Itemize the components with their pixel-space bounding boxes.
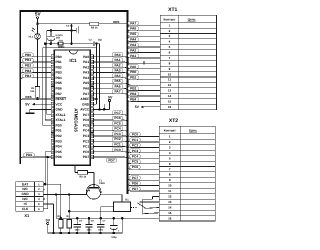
net label PC6 wire to bus <box>94 116 128 123</box>
IC1 right pin 30 AVCC <box>80 108 94 112</box>
IC1 right pin 29 PC7 <box>83 113 94 117</box>
ground symbol at GND pin <box>26 110 51 114</box>
svg-text:RES: RES <box>25 95 31 99</box>
wire R1 to RESET junction <box>37 97 39 99</box>
svg-text:PA1: PA1 <box>130 54 136 58</box>
svg-text:PD7: PD7 <box>108 158 114 162</box>
wire AREF vertical <box>96 44 98 104</box>
wire v2 to PD0 <box>43 48 51 126</box>
svg-text:PA0: PA0 <box>130 65 136 69</box>
svg-text:VCC: VCC <box>56 102 63 106</box>
junction emitter/R4 branch <box>68 193 71 196</box>
svg-text:PC7: PC7 <box>83 113 89 117</box>
svg-text:PA4: PA4 <box>83 76 89 80</box>
svg-text:PA4: PA4 <box>115 74 121 78</box>
IC1 right pin 22 PC0 <box>83 150 94 154</box>
junction R4/relay line <box>68 210 71 213</box>
svg-text:PD7: PD7 <box>132 187 138 191</box>
net label PD6 wire to bus <box>20 153 51 160</box>
svg-text:PB0: PB0 <box>130 70 136 74</box>
wire bus to XT1 pin 13 <box>128 86 161 90</box>
junction h3/AREF vertical <box>95 42 98 45</box>
IC1 left pin 16 PD2 <box>51 134 62 138</box>
junction h2/v71.5 <box>70 29 73 32</box>
capacitor C1 electrolytic <box>47 30 64 43</box>
svg-text:RES: RES <box>113 20 119 24</box>
svg-text:PD6: PD6 <box>26 153 32 157</box>
svg-text:PA2: PA2 <box>115 63 121 67</box>
junction R3 top rail <box>60 217 63 220</box>
IC1 left pin 4 PB3 <box>51 71 62 75</box>
microcontroller IC1 ATMEGA16 body <box>54 50 90 165</box>
junction AVCC/C2 <box>98 108 101 111</box>
net label PA3 wire to bus <box>94 68 128 75</box>
svg-text:PB5: PB5 <box>56 81 62 85</box>
svg-text:16: 16 <box>168 216 172 220</box>
net label PC4 wire to bus <box>94 127 128 134</box>
IC1 left pin 2 PB1 <box>51 60 62 64</box>
resistor R2 <box>75 166 94 179</box>
svg-text:11: 11 <box>168 78 172 82</box>
svg-text:PC3: PC3 <box>132 149 138 153</box>
IC1 left pin 17 PD3 <box>51 139 62 143</box>
svg-text:PC6: PC6 <box>114 116 120 120</box>
IC1 right pin 38 PA2 <box>83 65 94 69</box>
svg-text:X1: X1 <box>24 213 30 218</box>
svg-text:HL1: HL1 <box>29 36 34 39</box>
wire v56 to gnd rail <box>55 195 57 219</box>
wire bus to XT1 pin 1 <box>128 21 161 25</box>
svg-text:C945: C945 <box>99 182 105 185</box>
IC1 right pin 35 PA5 <box>83 81 94 85</box>
vertical wire x71.5 h1-h3 <box>71 24 73 44</box>
junction rail corner <box>121 217 124 220</box>
IC1 left pin 12 XTAL2 <box>51 113 65 117</box>
wire h1 5V to R5 <box>38 23 90 25</box>
net label PA4 wire to bus <box>94 74 128 81</box>
svg-text:PD6: PD6 <box>132 182 138 186</box>
wire GND stub down <box>103 104 105 109</box>
capacitor C2 (series on h3) <box>93 42 95 47</box>
svg-text:PB1: PB1 <box>25 58 31 62</box>
transistor T1 <box>86 172 105 199</box>
svg-text:PC0: PC0 <box>83 150 89 154</box>
svg-text:PB2: PB2 <box>56 65 62 69</box>
wire bus to XT2 pin 3 <box>128 143 160 147</box>
net label PA2 wire to bus <box>94 63 128 70</box>
net label PB2 wire to bus <box>20 63 51 70</box>
svg-text:CLK: CLK <box>22 207 29 211</box>
svg-text:5V: 5V <box>35 12 42 17</box>
wire PD5 to DAT <box>45 152 51 184</box>
label C2 <box>89 39 103 42</box>
svg-text:PD3: PD3 <box>56 139 62 143</box>
svg-text:10k: 10k <box>30 90 35 93</box>
IC1 left pin 18 PD4 <box>51 145 62 149</box>
svg-text:PA4: PA4 <box>130 38 136 42</box>
wire bus to XT1 pin 2 <box>128 27 161 31</box>
wire bus to XT1 pin 5 <box>128 43 161 47</box>
svg-text:12: 12 <box>168 194 172 198</box>
svg-text:+5: +5 <box>23 202 27 206</box>
wire +5 down to 5V rail <box>43 204 53 233</box>
svg-text:C3 0,1: C3 0,1 <box>66 25 74 28</box>
svg-text:100n: 100n <box>87 228 93 231</box>
svg-text:PA0: PA0 <box>83 55 89 59</box>
wire GND row to transistor emitter <box>43 194 86 196</box>
net label RES (right) <box>113 20 119 24</box>
IC1 right pin 33 PA7 <box>83 92 94 96</box>
junction emitter/v56 <box>55 193 58 196</box>
wire h2 (XTAL2 net) <box>47 29 76 31</box>
junction +5 rail <box>52 232 55 235</box>
svg-text:AREF: AREF <box>80 97 89 101</box>
wire bus to XT1 pin 11 <box>128 76 161 80</box>
svg-text:PB4: PB4 <box>56 76 62 80</box>
wire rail corner <box>121 218 123 233</box>
label C3 <box>66 25 74 28</box>
net label PB3 wire to bus <box>20 69 51 76</box>
svg-text:R2 1k: R2 1k <box>79 175 86 178</box>
IC1 right pin 27 PC5 <box>83 123 94 127</box>
svg-text:PA0: PA0 <box>115 53 121 57</box>
junction on 5V line <box>36 23 39 26</box>
svg-text:PB3: PB3 <box>25 69 31 73</box>
svg-text:PB7: PB7 <box>56 92 62 96</box>
svg-text:PA7: PA7 <box>115 90 121 94</box>
svg-text:PA5: PA5 <box>130 32 136 36</box>
svg-text:PA7: PA7 <box>83 92 89 96</box>
net label PB0 wire to bus <box>20 53 51 60</box>
wire bus to XT2 pin 9 <box>128 176 160 180</box>
svg-text:PD0: PD0 <box>56 123 62 127</box>
net label PA0 wire to bus <box>94 53 128 60</box>
svg-text:PC1: PC1 <box>83 145 89 149</box>
svg-text:PD1: PD1 <box>56 129 62 133</box>
svg-text:11: 11 <box>168 189 172 193</box>
svg-text:PB3: PB3 <box>130 92 136 96</box>
svg-text:GND: GND <box>82 102 90 106</box>
junction relay cap <box>99 217 102 220</box>
net label PA7 wire to bus <box>94 90 128 97</box>
net label PC3 wire to bus <box>94 132 128 139</box>
connector XT2 table <box>159 118 215 221</box>
wire bus to XT2 pin 11 <box>128 187 160 191</box>
connector XT1 table <box>160 7 216 110</box>
wire v4 to XTAL2 <box>47 30 51 114</box>
IC1 right pin 32 AREF <box>80 97 93 101</box>
svg-text:XT1: XT1 <box>168 7 177 13</box>
IC1 left pin 11 GND <box>51 108 63 112</box>
junction v3/h3 <box>44 42 47 45</box>
wire DAT to R3 <box>43 184 61 219</box>
svg-text:5V: 5V <box>108 96 113 100</box>
net label PC1 wire to bus <box>94 142 128 149</box>
svg-text:PC2: PC2 <box>114 137 120 141</box>
svg-text:ZQ1: ZQ1 <box>58 40 63 43</box>
wire bus to XT1 pin 6 <box>128 48 161 52</box>
svg-text:PC1: PC1 <box>114 143 120 147</box>
svg-text:15p: 15p <box>98 39 103 42</box>
svg-text:PC4: PC4 <box>114 127 120 131</box>
wire bus to XT2 pin 4 <box>128 149 160 153</box>
net label PC5 wire to bus <box>94 121 128 128</box>
svg-text:PA6: PA6 <box>130 27 136 31</box>
wire XT2 row16 to rail <box>122 217 159 219</box>
svg-text:PC3: PC3 <box>114 132 120 136</box>
svg-text:PC0: PC0 <box>114 148 120 152</box>
wire PD6 to CLK <box>43 157 48 209</box>
IC1 right pin 26 PC4 <box>83 129 94 133</box>
svg-text:K1: K1 <box>125 199 129 202</box>
svg-text:ATMEGA16: ATMEGA16 <box>74 108 79 132</box>
junction GND/AVCC <box>103 108 106 111</box>
wire collector out <box>101 193 122 202</box>
resistor R4 <box>66 215 71 234</box>
svg-text:100μ: 100μ <box>111 236 117 239</box>
5V rail bottom <box>48 232 123 234</box>
svg-text:100n: 100n <box>75 228 81 231</box>
connector X1 table <box>16 182 44 219</box>
svg-text:PA6: PA6 <box>83 87 89 91</box>
svg-text:R5 1k: R5 1k <box>91 27 98 30</box>
svg-text:Цепь: Цепь <box>188 17 196 21</box>
svg-text:PC5: PC5 <box>132 160 138 164</box>
wire bus to XT1 pin 4 <box>128 37 161 41</box>
svg-text:IC1: IC1 <box>69 58 77 63</box>
5V power flag at VCC <box>25 103 51 107</box>
IC1 left pin 5 PB4 <box>51 76 62 80</box>
junction h3/v71.5 <box>70 42 73 45</box>
wire bus to XT1 pin 9 <box>128 65 161 69</box>
svg-text:XTAL2: XTAL2 <box>56 113 66 117</box>
gnd rail <box>56 217 122 219</box>
net label RES wire (RESET row) <box>20 95 51 102</box>
net label PC2 wire to bus <box>94 137 128 144</box>
IC1 right pin 31 GND <box>82 102 94 106</box>
svg-text:PC7: PC7 <box>114 111 120 115</box>
IC1 right pin 39 PA1 <box>83 60 94 64</box>
svg-text:PA1: PA1 <box>83 60 89 64</box>
wire bus to XT2 pin 2 <box>128 138 160 142</box>
svg-text:PB0: PB0 <box>56 55 62 59</box>
svg-text:RESET: RESET <box>56 97 67 101</box>
svg-text:PB0: PB0 <box>25 53 31 57</box>
IC1 left pin 15 PD1 <box>51 129 62 133</box>
wire bus to XT1 pin 12 <box>128 82 161 85</box>
bus entry arc for RES wire <box>126 23 128 25</box>
svg-text:16: 16 <box>168 105 172 109</box>
svg-text:5V: 5V <box>25 103 30 107</box>
stub X1 pin2 NC <box>43 188 45 190</box>
svg-text:PB2: PB2 <box>130 87 136 91</box>
svg-text:PB6: PB6 <box>56 87 62 91</box>
svg-text:PA3: PA3 <box>83 71 89 75</box>
svg-text:GND: GND <box>22 192 30 196</box>
svg-text:AVCC: AVCC <box>80 108 89 112</box>
5V power flag at AVCC <box>94 96 113 110</box>
IC1 right pin 24 PC2 <box>83 139 94 143</box>
5V supply label (top) <box>35 12 42 17</box>
net label PC7 wire to bus <box>94 111 128 118</box>
svg-text:PC4: PC4 <box>83 129 89 133</box>
svg-text:DAT: DAT <box>22 182 28 186</box>
5V power flag bottom <box>46 218 51 233</box>
svg-text:PB1: PB1 <box>130 76 136 80</box>
wire bus to XT1 pin 14 <box>128 92 161 96</box>
svg-text:PC5: PC5 <box>114 121 120 125</box>
resistor R3 <box>57 215 63 234</box>
relay K1 coil <box>114 199 131 212</box>
svg-text:PB4: PB4 <box>130 97 136 101</box>
svg-text:100n: 100n <box>98 228 104 231</box>
svg-text:PD6: PD6 <box>56 155 62 159</box>
IC1 right pin 37 PA3 <box>83 71 94 75</box>
wire emitter out <box>86 193 88 194</box>
svg-text:Цепь: Цепь <box>189 129 197 133</box>
junction DAT row <box>44 183 47 186</box>
wire v3 to XTAL1 <box>45 44 51 120</box>
wire h3 (XTAL1 net) <box>45 43 93 45</box>
IC1 left pin 9 RESET <box>51 97 66 101</box>
net label PB4 wire to bus <box>20 74 51 81</box>
svg-text:5V: 5V <box>46 218 51 222</box>
capacitor C8 100u electrolytic <box>110 217 120 239</box>
svg-text:PC0: PC0 <box>132 132 138 136</box>
svg-text:13: 13 <box>168 200 172 204</box>
svg-text:PA3: PA3 <box>115 69 121 73</box>
svg-text:15: 15 <box>168 99 172 103</box>
svg-text:PA6: PA6 <box>115 84 121 88</box>
wire relay bottom line <box>69 210 113 212</box>
wire bus to XT1 pin 10 <box>128 70 161 74</box>
svg-text:14: 14 <box>168 205 172 209</box>
svg-text:PC2: PC2 <box>83 139 89 143</box>
svg-text:PC1: PC1 <box>132 138 138 142</box>
junction R1/RESET <box>36 98 39 101</box>
IC1 left pin 19 PD5 <box>51 150 62 154</box>
IC1 right pin 25 PC3 <box>83 134 94 138</box>
IC1 left pin 20 PD6 <box>51 155 62 159</box>
svg-text:10: 10 <box>168 72 172 76</box>
wire LED to R1 <box>37 44 39 87</box>
wire relay left <box>101 207 114 218</box>
resistor R5 (RESET pullup) <box>90 22 99 30</box>
wire C2 to AVCC corner <box>95 44 100 110</box>
IC1 right pin 23 PC1 <box>83 145 94 149</box>
svg-text:PC4: PC4 <box>132 154 138 158</box>
wire bus to XT2 pin 6 <box>128 160 160 164</box>
wire bus to XT2 pin 7 <box>128 165 160 169</box>
wire R4 branch down <box>68 195 70 220</box>
svg-text:PA7: PA7 <box>130 21 136 25</box>
svg-text:14: 14 <box>168 94 172 98</box>
wire R5 to bus (RES net) <box>99 23 127 25</box>
svg-text:PD2: PD2 <box>56 134 62 138</box>
svg-text:PD7: PD7 <box>83 155 89 159</box>
svg-text:PA3: PA3 <box>130 43 136 47</box>
svg-text:PA2: PA2 <box>130 48 136 52</box>
wire bus to XT2 pin 1 <box>128 132 160 136</box>
resistor R1 10k (on RESET pullup line) <box>30 87 40 98</box>
capacitor C6 100n <box>85 217 94 234</box>
IC1 right pin 21 PD7 <box>83 155 94 159</box>
svg-text:PA1: PA1 <box>115 58 121 62</box>
net label PA5 wire to bus <box>94 79 128 86</box>
capacitor C7 100n <box>97 217 106 234</box>
svg-text:Контакт: Контакт <box>164 17 176 21</box>
wire bus to XT2 pin 8 <box>128 172 160 175</box>
IC1 left pin 3 PB2 <box>51 65 62 69</box>
svg-text:PC7: PC7 <box>132 176 138 180</box>
svg-text:PB3: PB3 <box>56 71 62 75</box>
wire bus to XT1 pin 8 <box>128 60 161 63</box>
IC1 left pin 7 PB6 <box>51 87 62 91</box>
net label PD7 wire to bus <box>94 157 128 162</box>
wire bus to XT1 pin 15 <box>128 97 161 101</box>
net label PA6 wire to bus <box>94 84 128 91</box>
svg-text:PA5: PA5 <box>83 81 89 85</box>
stub X1 pin4 NC <box>43 198 45 200</box>
IC1 right pin 40 PA0 <box>83 55 94 59</box>
IC1 left pin 13 XTAL1 <box>51 118 65 122</box>
wire h4 (AREF net) <box>43 47 97 49</box>
svg-text:PA5: PA5 <box>115 79 121 83</box>
svg-text:5V: 5V <box>135 105 140 109</box>
svg-text:PC2: PC2 <box>132 143 138 147</box>
svg-text:XTAL1: XTAL1 <box>56 118 66 122</box>
junction PD6/CLK drop <box>46 156 49 159</box>
net label PC0 wire to bus <box>94 148 128 155</box>
capacitor C5 100n <box>74 217 83 234</box>
5V power flag at XT1 pin16 <box>135 105 161 109</box>
svg-text:Контакт: Контакт <box>164 129 176 133</box>
LED HL1 <box>29 24 41 44</box>
svg-text:10: 10 <box>168 184 172 188</box>
junction AREF/GND v <box>95 98 98 101</box>
crystal ZQ1 <box>58 40 65 49</box>
wire bus to XT2 pin 5 <box>128 154 160 158</box>
wire AREF pin <box>94 98 97 100</box>
svg-text:PB4: PB4 <box>25 74 31 78</box>
svg-text:N/C: N/C <box>22 187 28 191</box>
svg-text:15: 15 <box>168 211 172 215</box>
IC1 left pin 6 PB5 <box>51 81 62 85</box>
svg-text:PB2: PB2 <box>25 64 31 68</box>
net label PA1 wire to bus <box>94 58 128 65</box>
IC1 left pin 8 PB7 <box>51 92 62 96</box>
svg-text:PB1: PB1 <box>56 60 62 64</box>
IC1 left pin 1 PB0 <box>51 55 62 59</box>
svg-text:XT2: XT2 <box>169 118 178 124</box>
wire GND pin right <box>94 103 97 105</box>
net label PB1 wire to bus <box>20 58 51 65</box>
svg-text:PD4: PD4 <box>56 145 62 149</box>
svg-text:PC6: PC6 <box>83 118 89 122</box>
IC1 left pin 14 PD0 <box>51 123 62 127</box>
wire bus to XT1 pin 7 <box>128 54 161 58</box>
svg-text:PA2: PA2 <box>83 65 89 69</box>
junction C1 bottom <box>50 42 53 45</box>
IC1 right pin 28 PC6 <box>83 118 94 122</box>
svg-text:GND: GND <box>56 108 64 112</box>
wire bus to XT1 pin 3 <box>128 32 161 36</box>
svg-text:N/C: N/C <box>22 197 28 201</box>
svg-text:13: 13 <box>168 89 172 93</box>
tick on XT1 row8 wire <box>143 61 145 64</box>
svg-text:PC5: PC5 <box>83 123 89 127</box>
IC1 right pin 36 PA4 <box>83 76 94 80</box>
